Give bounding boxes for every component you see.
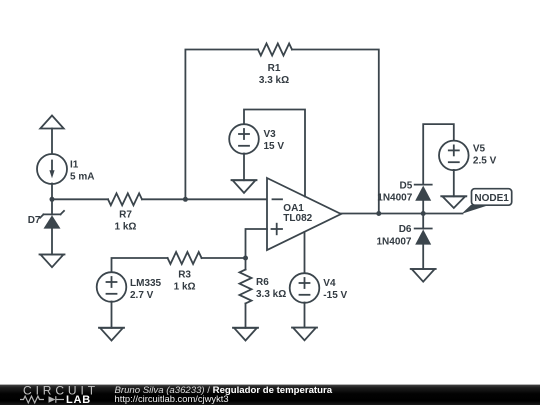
ground below V5 bbox=[441, 196, 466, 208]
svg-text:-15 V: -15 V bbox=[323, 290, 347, 301]
power flag above I1 bbox=[40, 116, 63, 129]
wire output to D5 bbox=[422, 201, 424, 214]
node junction output/D5/D6 bbox=[421, 211, 426, 216]
node junction feedback/minus input bbox=[183, 197, 188, 202]
wire R1 to output bbox=[292, 50, 379, 214]
svg-text:5 mA: 5 mA bbox=[70, 172, 94, 183]
op-amp OA1 triangle bbox=[267, 178, 341, 250]
wire junction to R6 bbox=[245, 258, 247, 270]
wire node to D7 bbox=[51, 199, 53, 214]
svg-text:R7: R7 bbox=[119, 210, 132, 221]
svg-text:1 kΩ: 1 kΩ bbox=[115, 222, 137, 233]
resistor R1 bbox=[258, 44, 292, 56]
diode D5 bbox=[415, 185, 432, 201]
wire D7 to ground bbox=[51, 229, 53, 255]
node junction at I1/D7/R7 bbox=[50, 197, 55, 202]
diode D7 (zener) bbox=[40, 211, 64, 229]
resistor R3 bbox=[168, 252, 202, 264]
wire D6 to ground bbox=[422, 245, 424, 269]
wire junction to op-amp minus input bbox=[185, 198, 267, 200]
svg-text:1N4007: 1N4007 bbox=[377, 192, 412, 203]
voltage source V5 bbox=[439, 141, 469, 171]
diode D6 bbox=[415, 229, 432, 245]
wire R6 to ground bbox=[245, 304, 247, 328]
svg-text:1 kΩ: 1 kΩ bbox=[174, 282, 196, 293]
schematic text labels bbox=[28, 63, 510, 301]
wire feedback up bbox=[185, 50, 258, 200]
svg-text:I1: I1 bbox=[70, 160, 79, 171]
wire flag to I1 bbox=[51, 129, 53, 155]
current source I1 bbox=[37, 154, 67, 184]
wire op-amp output bbox=[341, 213, 463, 215]
svg-text:LM335: LM335 bbox=[130, 278, 162, 289]
svg-text:V4: V4 bbox=[323, 278, 336, 289]
resistor R7 bbox=[108, 193, 142, 205]
wire LM335 to ground bbox=[111, 302, 113, 328]
wire R7 to junction bbox=[142, 198, 185, 200]
ground below D6 bbox=[411, 269, 436, 282]
svg-text:LAB: LAB bbox=[66, 394, 91, 405]
ground below V3 bbox=[232, 180, 257, 193]
svg-text:1N4007: 1N4007 bbox=[376, 236, 411, 247]
node flag NODE1 bbox=[462, 189, 512, 214]
voltage source V4 bbox=[290, 273, 320, 303]
wire op-amp plus input to R3/R6 junction bbox=[246, 229, 268, 258]
ground below V4 bbox=[292, 328, 317, 341]
ground below D7 bbox=[40, 255, 65, 268]
footer bar bbox=[0, 385, 540, 405]
wire node to R7 bbox=[52, 198, 108, 200]
svg-text:TL082: TL082 bbox=[283, 213, 312, 224]
wire V3 top to op-amp V+ bbox=[244, 110, 305, 197]
svg-text:2.7 V: 2.7 V bbox=[130, 290, 154, 301]
node junction feedback/output bbox=[376, 211, 381, 216]
wire V4 to ground bbox=[304, 303, 306, 328]
svg-text:V3: V3 bbox=[264, 129, 277, 140]
wire op-amp V- to V4 bbox=[304, 232, 306, 274]
svg-text:2.5 V: 2.5 V bbox=[473, 156, 497, 167]
svg-text:V5: V5 bbox=[473, 144, 486, 155]
svg-text:D7: D7 bbox=[28, 215, 41, 226]
svg-text:3.3 kΩ: 3.3 kΩ bbox=[256, 289, 286, 300]
svg-text:3.3 kΩ: 3.3 kΩ bbox=[259, 75, 289, 86]
svg-text:D6: D6 bbox=[399, 224, 412, 235]
wire LM335 to R3 bbox=[112, 258, 168, 273]
svg-text:R3: R3 bbox=[178, 270, 191, 281]
svg-text:NODE1: NODE1 bbox=[474, 193, 509, 204]
ground below R6 bbox=[233, 328, 258, 341]
wire D5 to V5 bbox=[423, 124, 454, 185]
node junction R3/R6/plus bbox=[243, 256, 248, 261]
svg-text:http://circuitlab.com/cjwykt3: http://circuitlab.com/cjwykt3 bbox=[115, 393, 229, 404]
svg-text:D5: D5 bbox=[400, 180, 413, 191]
footer logo doodle wire/resistor/diode bbox=[20, 396, 64, 403]
svg-text:R6: R6 bbox=[256, 277, 269, 288]
svg-text:R1: R1 bbox=[268, 63, 281, 74]
ground below LM335 bbox=[99, 328, 124, 341]
wire I1 to node bbox=[51, 184, 53, 200]
svg-text:15 V: 15 V bbox=[264, 141, 285, 152]
op-amp plus input mark bbox=[272, 224, 283, 235]
wire V5 to ground bbox=[453, 170, 455, 196]
wire R3 to junction bbox=[202, 257, 246, 259]
wire V3 to ground bbox=[243, 154, 245, 181]
voltage source LM335 bbox=[97, 272, 127, 302]
wire output to D6 bbox=[422, 214, 424, 229]
voltage source V3 bbox=[229, 124, 259, 154]
op-amp minus input mark bbox=[273, 198, 283, 200]
resistor R6 vertical bbox=[240, 270, 252, 304]
